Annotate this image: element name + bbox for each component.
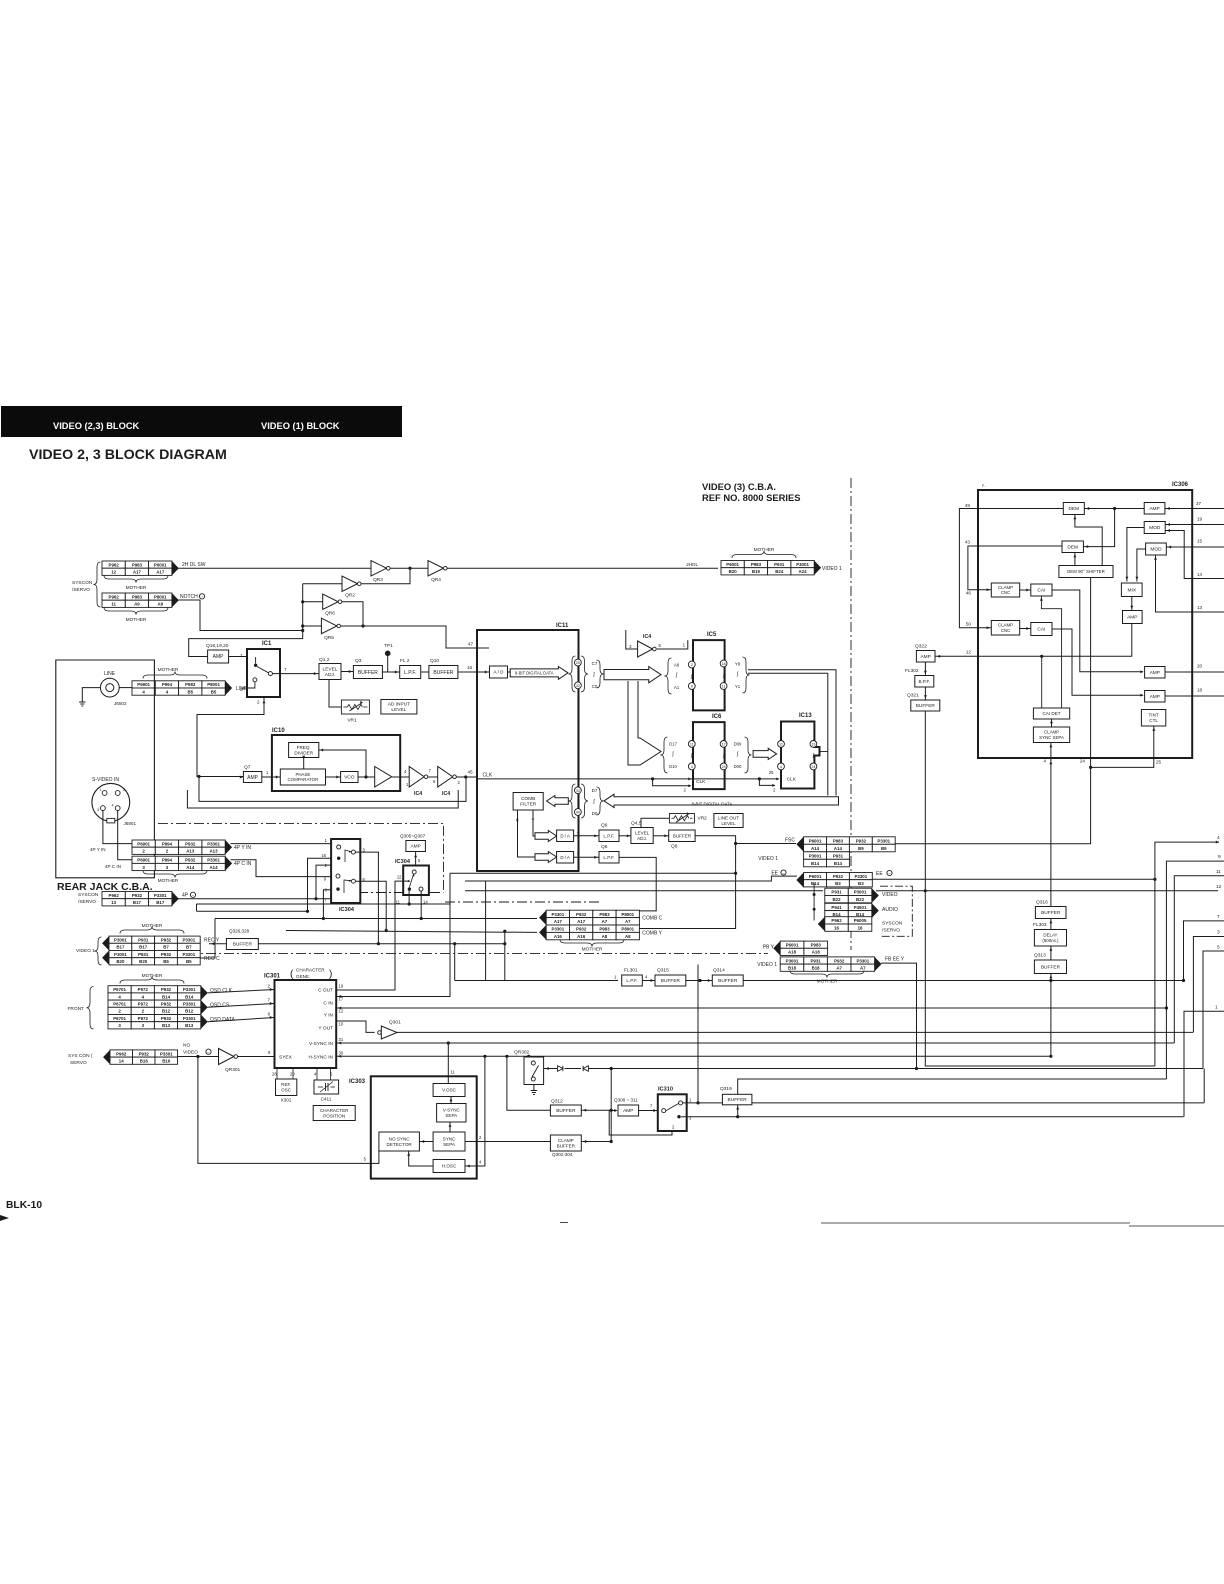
svg-text:P983: P983 xyxy=(185,682,196,687)
wire LEVEL ADJ to BUFFER Q6 xyxy=(653,835,669,837)
wire pin column 32 to 33 xyxy=(577,690,579,787)
svg-text:12: 12 xyxy=(966,650,972,655)
svg-text:1: 1 xyxy=(240,653,243,658)
svg-text:B18: B18 xyxy=(788,966,797,971)
svg-text:2HDL: 2HDL xyxy=(686,562,698,567)
svg-text:P6001: P6001 xyxy=(154,562,167,567)
modulator MOD 1 xyxy=(1144,522,1165,534)
svg-text:J6801: J6801 xyxy=(124,821,137,826)
svg-text:DETECTOR: DETECTOR xyxy=(387,1142,413,1147)
amp pin20 xyxy=(1145,667,1165,679)
svg-text:11: 11 xyxy=(690,743,694,747)
svg-text:P972: P972 xyxy=(138,1016,149,1021)
IC6 left pins 11/4 D17-D10 xyxy=(661,737,668,773)
boundary dash-dot mid segment xyxy=(358,892,444,894)
svg-text:LEVEL: LEVEL xyxy=(721,821,736,826)
svg-text:4P C IN: 4P C IN xyxy=(105,864,121,869)
wire OSD CS to IC301 xyxy=(208,1004,275,1008)
svg-text:VCO: VCO xyxy=(344,775,355,781)
header bar xyxy=(1,406,402,437)
svg-text:P6001: P6001 xyxy=(809,839,822,844)
svg-text:2H DL SW: 2H DL SW xyxy=(182,562,206,568)
svg-text:16: 16 xyxy=(467,665,473,670)
block arrow D7-D0 to comb filter xyxy=(547,796,569,807)
op-amp IC11 block xyxy=(477,630,579,871)
wire QR302 top to H-SYNC rail xyxy=(528,1055,530,1058)
svg-text:9: 9 xyxy=(1218,854,1221,860)
amp pin37 xyxy=(1144,503,1165,515)
wire LEVEL ADJ to BUFFER Q3 xyxy=(341,671,353,673)
svg-text:P3301: P3301 xyxy=(207,858,220,863)
demodulator DEM 1 xyxy=(1063,503,1084,515)
svg-text:14: 14 xyxy=(1197,572,1203,577)
block arrow C to D/A 2 xyxy=(535,852,557,863)
svg-text:VIDEO (1) BLOCK: VIDEO (1) BLOCK xyxy=(261,421,340,431)
svg-text:Y8: Y8 xyxy=(735,662,741,667)
svg-text:ADJ.: ADJ. xyxy=(637,836,647,841)
svg-text:P931: P931 xyxy=(138,952,149,957)
brace MOTHER below 4P tables xyxy=(143,871,207,878)
svg-text:/SERVO: /SERVO xyxy=(72,587,90,593)
wire V-SYNC branch into IC303 pin 11 xyxy=(447,1043,449,1084)
IC5 right pins 18/11 Y8-Y1 xyxy=(720,660,727,667)
wire Y OUT to Q301 xyxy=(336,1021,375,1032)
svg-text:MOTHER: MOTHER xyxy=(817,979,838,985)
svg-text:P6901: P6901 xyxy=(137,858,150,863)
svg-text:C OUT: C OUT xyxy=(318,988,333,994)
svg-text:Q302-304: Q302-304 xyxy=(552,1152,573,1157)
test point TP1 xyxy=(385,651,391,657)
svg-text:8-BIT DIGITAL DATA: 8-BIT DIGITAL DATA xyxy=(515,670,554,675)
svg-text:47: 47 xyxy=(468,642,474,647)
op-amp IC10 block xyxy=(272,735,400,791)
rear jack board outline xyxy=(56,660,155,878)
svg-text:P8001: P8001 xyxy=(621,912,634,917)
svg-text:B13: B13 xyxy=(162,1023,171,1028)
svg-text:A7: A7 xyxy=(836,966,842,971)
svg-text:MOTHER: MOTHER xyxy=(126,617,147,623)
svg-text:9: 9 xyxy=(691,685,693,689)
svg-text:QR2: QR2 xyxy=(345,593,355,599)
svg-text:Q305~Q307: Q305~Q307 xyxy=(400,834,426,839)
svg-text:SYSCON: SYSCON xyxy=(78,892,99,898)
wire BUFFER Q10 to A/D pin 16 xyxy=(458,671,490,673)
wire IC4b CLK output to IC11 xyxy=(456,776,477,778)
svg-text:A17: A17 xyxy=(577,919,586,924)
svg-text:B22: B22 xyxy=(833,897,842,902)
wire Q312 output riser to H-SYNC rail xyxy=(507,1057,551,1110)
svg-text:REC C: REC C xyxy=(204,956,220,962)
wire FL303 to Q313 xyxy=(1050,946,1052,960)
svg-text:Q3: Q3 xyxy=(355,658,362,664)
label box LINE OUT LEVEL xyxy=(714,814,743,828)
svg-text:IC10: IC10 xyxy=(272,728,285,734)
svg-text:P983: P983 xyxy=(833,839,844,844)
svg-text:10: 10 xyxy=(339,1022,344,1027)
wire LPF Q6 output down to COMB C table xyxy=(619,857,656,911)
wire D/A1 to LPF Q9 xyxy=(574,835,599,837)
svg-text:X301: X301 xyxy=(281,1098,292,1103)
wire D/A2 to LPF Q6 xyxy=(574,856,599,858)
svg-text:A7: A7 xyxy=(602,919,608,924)
wire pin 14 stub to page edge xyxy=(1192,578,1224,580)
freq divider xyxy=(289,743,319,758)
svg-text:18: 18 xyxy=(1197,688,1203,693)
svg-text:AMP: AMP xyxy=(1150,670,1160,676)
op-amp IC301 character generator xyxy=(275,980,337,1068)
wire shifter to DEM1 input xyxy=(1075,515,1102,566)
svg-text:A8: A8 xyxy=(602,934,608,939)
connector table VIDEO out xyxy=(825,888,849,895)
wire EE to pin 12 rail xyxy=(465,890,823,892)
svg-text:BUFFER: BUFFER xyxy=(718,978,738,984)
svg-text:L.P.F.: L.P.F. xyxy=(603,833,614,838)
svg-text:AUDIO: AUDIO xyxy=(882,907,898,913)
wire pin 18 stub to page edge xyxy=(1192,695,1224,697)
crystal REF OSC xyxy=(276,1068,278,1079)
svg-text:P972: P972 xyxy=(138,987,149,992)
wire IC304L pin8 riser xyxy=(323,890,331,919)
svg-text:Q314: Q314 xyxy=(713,968,725,974)
svg-text:49: 49 xyxy=(965,503,971,508)
wire IC306 pin24 down to FSC line xyxy=(895,758,1091,844)
svg-text:P962: P962 xyxy=(109,594,120,599)
svg-text:2: 2 xyxy=(691,663,693,667)
wire pin47 entry xyxy=(477,647,489,649)
svg-text:P932: P932 xyxy=(161,987,172,992)
connector table AUDIO out xyxy=(825,903,849,910)
block arrow branch down to IC6 xyxy=(628,681,661,765)
svg-text:P994: P994 xyxy=(162,841,173,846)
wire into clamp buffer xyxy=(581,1141,611,1143)
sync separator V-SYNC SEPA xyxy=(437,1104,466,1123)
no sync detector xyxy=(379,1132,420,1151)
wire loop second xyxy=(187,790,458,808)
wire pin 5 riser joins diode rail xyxy=(1203,1069,1205,1103)
svg-text:Q4,5: Q4,5 xyxy=(631,821,642,827)
svg-text:IC4: IC4 xyxy=(414,791,422,797)
svg-text:A7: A7 xyxy=(625,919,631,924)
wire pin 13 stub to page edge xyxy=(1192,611,1224,613)
svg-text:13: 13 xyxy=(1197,605,1203,610)
sync separator SYNC SEPA xyxy=(433,1132,465,1151)
wire Q313 down to H-SYNC rail xyxy=(1050,974,1052,1057)
op-amp IC13 block xyxy=(781,722,820,789)
svg-text:LEVEL: LEVEL xyxy=(391,707,406,713)
svg-text:B5: B5 xyxy=(187,689,193,694)
svg-text:1: 1 xyxy=(1215,1005,1218,1011)
svg-text:CHARACTER: CHARACTER xyxy=(320,1108,349,1113)
wire pin 37 stub to page edge xyxy=(1192,508,1224,510)
trimmer VR1 xyxy=(329,680,341,708)
svg-text:V-SYNC IN: V-SYNC IN xyxy=(309,1041,334,1047)
svg-text:11: 11 xyxy=(1216,869,1221,875)
svg-text:P3301: P3301 xyxy=(183,987,196,992)
wire CLK branch to IC6 pin 2 xyxy=(653,779,690,786)
block arrow 8-BIT DIGITAL DATA to pin column xyxy=(508,671,511,673)
svg-text:FL303: FL303 xyxy=(1033,922,1047,928)
wire IC13 output tab to Y bus xyxy=(820,751,828,753)
svg-text:BUFFER: BUFFER xyxy=(1041,910,1061,916)
svg-text:Q308 ~ 311: Q308 ~ 311 xyxy=(614,1098,638,1103)
wire H-SYNC branch into IC303 pin 4 xyxy=(465,1056,485,1166)
svg-text:VIDEO (2,3) BLOCK: VIDEO (2,3) BLOCK xyxy=(53,421,140,431)
IC13 pins xyxy=(778,741,785,748)
svg-text:Q316: Q316 xyxy=(1036,900,1048,906)
svg-text:A18: A18 xyxy=(788,950,797,955)
svg-text:P931: P931 xyxy=(831,890,842,895)
a/d converter xyxy=(490,666,508,678)
svg-text:AMP: AMP xyxy=(920,654,930,660)
wire CLAMP CNC2 to CAI2 xyxy=(1020,628,1031,630)
svg-text:20: 20 xyxy=(1197,664,1203,669)
wire feedback loop IC310 pin2 to AMP xyxy=(609,1111,672,1136)
wire bundle 911 run xyxy=(197,910,308,912)
svg-text:FL302: FL302 xyxy=(905,668,919,674)
bracket dash-dot right of VIDEO/AUDIO tables xyxy=(880,886,912,936)
clamp CNC 1 xyxy=(991,583,1019,597)
svg-text:A8: A8 xyxy=(625,934,631,939)
svg-text:P3001: P3001 xyxy=(114,952,127,957)
wire IC304L pin2 riser to 4P line xyxy=(316,865,331,899)
svg-text:P932: P932 xyxy=(856,839,867,844)
svg-text:19: 19 xyxy=(811,743,815,747)
svg-text:SYNC: SYNC xyxy=(443,1136,456,1141)
svg-text:L.P.F.: L.P.F. xyxy=(626,978,637,983)
svg-text:BUFFER: BUFFER xyxy=(673,833,692,838)
diode D2 xyxy=(583,1066,588,1071)
svg-text:P932: P932 xyxy=(833,874,844,879)
svg-text:): ) xyxy=(329,969,332,980)
svg-text:B17: B17 xyxy=(116,945,125,950)
svg-text:IC4: IC4 xyxy=(442,791,450,797)
svg-text:P3001: P3001 xyxy=(114,938,127,943)
svg-text:P931: P931 xyxy=(138,938,149,943)
svg-text:VIDEO 1: VIDEO 1 xyxy=(822,566,842,572)
svg-text:B14: B14 xyxy=(811,861,820,866)
svg-text:16: 16 xyxy=(321,853,326,858)
svg-text:B14: B14 xyxy=(185,994,194,999)
clamp CNC 2 xyxy=(991,621,1019,636)
wire QR2 output up to 2H DL SW line xyxy=(361,568,410,584)
wire H.OSC loop to NO SYNC DETECTOR xyxy=(409,1151,433,1166)
brace MOTHER above VIDEO1 table xyxy=(732,551,796,558)
wire IC306 pin25 joins pin24 xyxy=(1091,758,1154,767)
svg-text:Q322: Q322 xyxy=(915,644,927,650)
wire shifter to DEM2 input xyxy=(1074,553,1076,566)
svg-text:A16: A16 xyxy=(577,934,586,939)
svg-text:VIDEO (3) C.B.A.: VIDEO (3) C.B.A. xyxy=(702,481,776,492)
svg-text:19: 19 xyxy=(1197,517,1203,522)
comb filter xyxy=(513,793,543,811)
amp pin18 xyxy=(1145,691,1165,703)
svg-text:P4501: P4501 xyxy=(854,905,867,910)
svg-text:BUFFER: BUFFER xyxy=(358,670,378,676)
svg-text:P6701: P6701 xyxy=(113,1002,126,1007)
wire QR2 input xyxy=(303,583,342,585)
svg-text:A9: A9 xyxy=(157,602,163,607)
svg-text:A14: A14 xyxy=(811,846,820,851)
wire SYNC SEPA to V-SYNC SEPA xyxy=(449,1122,451,1132)
svg-text:COMB C: COMB C xyxy=(642,916,662,922)
svg-text:30: 30 xyxy=(339,1051,344,1056)
svg-text:D09: D09 xyxy=(734,742,742,747)
svg-text:5: 5 xyxy=(1217,945,1220,951)
block arrow 8-bit return data xyxy=(604,794,839,807)
svg-text:DIVIDER: DIVIDER xyxy=(294,750,313,755)
wire AMP to IC1 pin 1 xyxy=(229,656,247,658)
svg-text:25: 25 xyxy=(769,770,774,775)
wire vertical EE to FL301 line xyxy=(485,882,487,981)
svg-text:P6901: P6901 xyxy=(137,841,150,846)
wire divider feedback xyxy=(337,750,366,777)
svg-text:F ˖: F ˖ xyxy=(982,484,986,488)
wire S-video pin4 to 4P C IN xyxy=(118,811,132,860)
wire Q315 to Q314 xyxy=(686,980,713,982)
svg-text:QR6: QR6 xyxy=(325,611,335,617)
wire IC303 pin 5 from no-video xyxy=(198,1057,379,1164)
wire VCO to amp triangle xyxy=(358,776,375,778)
svg-text:A14: A14 xyxy=(186,865,195,870)
svg-text:B9: B9 xyxy=(881,846,887,851)
svg-text:P983: P983 xyxy=(751,562,762,567)
svg-text:SEPA: SEPA xyxy=(445,1113,458,1118)
svg-text:IC303: IC303 xyxy=(349,1079,366,1085)
svg-text:P3301: P3301 xyxy=(551,927,564,932)
svg-text:CAI: CAI xyxy=(1037,588,1045,594)
wire COMB Y run xyxy=(286,931,537,933)
svg-text:IC13: IC13 xyxy=(799,713,812,719)
wire COMB C run xyxy=(215,918,537,920)
svg-text:Q319: Q319 xyxy=(720,1086,732,1092)
svg-text:4: 4 xyxy=(1043,759,1046,764)
svg-text:AMP: AMP xyxy=(623,1108,633,1114)
svg-text:POSITION: POSITION xyxy=(323,1113,345,1118)
wire pin 19 stub to page edge xyxy=(1192,524,1224,526)
wire pin 15 stub to page edge xyxy=(1192,546,1224,548)
svg-text:P3001: P3001 xyxy=(786,958,799,963)
wire Y record feed to FL301 xyxy=(454,944,456,981)
svg-text:A13: A13 xyxy=(210,849,219,854)
svg-text:S-VIDEO IN: S-VIDEO IN xyxy=(92,777,119,783)
svg-text:MOD: MOD xyxy=(1149,525,1161,531)
wire 4P Y IN to IC304 pin1 xyxy=(231,843,332,845)
wire QR5 output to IC11 pin 47 xyxy=(341,626,477,648)
inverter QR6 xyxy=(323,594,339,610)
svg-text:A17: A17 xyxy=(133,570,142,575)
svg-text:CLAMP: CLAMP xyxy=(558,1138,574,1143)
svg-text:25: 25 xyxy=(576,661,580,665)
svg-text:B20: B20 xyxy=(116,959,125,964)
svg-text:B12: B12 xyxy=(162,1009,171,1014)
svg-text:P932: P932 xyxy=(185,858,196,863)
op-amp IC5 block xyxy=(693,640,725,710)
svg-text:VR1: VR1 xyxy=(347,718,357,724)
block arrow IC6 to IC13 xyxy=(753,748,777,759)
svg-text:B5: B5 xyxy=(211,689,217,694)
connector table FRONT OSD xyxy=(108,986,131,993)
svg-text:7: 7 xyxy=(284,667,287,672)
svg-text:C7: C7 xyxy=(592,661,598,666)
svg-text:SYEX: SYEX xyxy=(279,1055,293,1061)
op-amp IC303 block xyxy=(371,1076,477,1178)
d/a converter 1 xyxy=(557,830,574,842)
clamp buffer Q302-304 xyxy=(550,1135,581,1151)
svg-text:MOTHER: MOTHER xyxy=(754,547,775,553)
wire H-SYNC rail xyxy=(336,1055,1051,1057)
svg-text:FL 2: FL 2 xyxy=(400,658,410,664)
svg-text:B17: B17 xyxy=(139,945,148,950)
svg-text:24: 24 xyxy=(722,765,726,769)
wire IC10 out to IC4 pair xyxy=(392,776,410,778)
svg-text:12: 12 xyxy=(397,875,402,880)
wire diode rail to pin 5 riser xyxy=(589,1068,1204,1070)
svg-text:DEM: DEM xyxy=(1068,506,1079,512)
wire QR5 input xyxy=(303,625,322,627)
svg-text:11: 11 xyxy=(722,685,726,689)
wire AMP to IC310 wiper xyxy=(639,1110,658,1112)
svg-text:P932: P932 xyxy=(132,893,143,898)
wire Q7 AMP to phase comparator xyxy=(262,776,281,778)
wire comb-y to FL301 xyxy=(504,931,506,980)
svg-text:P3301: P3301 xyxy=(854,874,867,879)
svg-text:P962: P962 xyxy=(109,893,120,898)
svg-text:Q10: Q10 xyxy=(430,658,439,664)
wire IC306 pin12 to Q322 AMP xyxy=(935,655,978,657)
svg-text:NO: NO xyxy=(183,1043,190,1049)
svg-text:IC306: IC306 xyxy=(1172,482,1189,488)
tint control xyxy=(1141,710,1165,727)
svg-text:SYSCON: SYSCON xyxy=(72,580,93,586)
svg-text:FILTER: FILTER xyxy=(520,802,537,808)
wire IC304L pin16 riser xyxy=(308,858,332,911)
svg-text:P932: P932 xyxy=(161,952,172,957)
svg-text:MIX: MIX xyxy=(1127,587,1136,593)
svg-text:AMP: AMP xyxy=(247,775,259,781)
svg-text:16: 16 xyxy=(834,926,839,931)
svg-text:NOTCH: NOTCH xyxy=(180,594,198,600)
wire VIDEO/AUDIO join vertical xyxy=(813,883,815,920)
wire LINE arrow to IC1 pin 3 xyxy=(242,687,247,689)
svg-text:4: 4 xyxy=(691,765,693,769)
phase comparator xyxy=(280,769,325,785)
svg-text:A13: A13 xyxy=(186,849,195,854)
svg-text:LINE: LINE xyxy=(104,671,116,677)
IC6 right pins 17/24 D09-D00 xyxy=(720,741,727,748)
svg-text:12: 12 xyxy=(1216,884,1222,890)
svg-text:PB Y: PB Y xyxy=(763,945,775,951)
brace MOTHER under 2H DL SW table xyxy=(104,576,168,583)
wire Q314 output rail to pin 7 xyxy=(743,980,1183,982)
svg-text:D17: D17 xyxy=(669,742,677,747)
svg-text:P932: P932 xyxy=(161,938,172,943)
inverter QR5 xyxy=(321,618,337,634)
svg-text:P983: P983 xyxy=(132,562,143,567)
wire bundle vertical to REC C xyxy=(196,904,198,911)
svg-text:LINE OUT: LINE OUT xyxy=(718,815,739,820)
svg-text:CHARACTER: CHARACTER xyxy=(296,968,325,973)
svg-text:Q321: Q321 xyxy=(907,693,919,699)
svg-text:50: 50 xyxy=(966,622,972,627)
svg-text:4P C IN: 4P C IN xyxy=(234,861,252,867)
svg-text:P932: P932 xyxy=(834,958,845,963)
wire LPF to BUFFER Q10 xyxy=(421,671,429,673)
amp triangle inside IC10 xyxy=(375,767,392,788)
wire EE rail to pin 4 junction xyxy=(465,876,797,881)
svg-text:2: 2 xyxy=(257,700,260,705)
svg-text:IC304: IC304 xyxy=(339,907,355,913)
wire QR6 output to junction xyxy=(342,602,363,626)
